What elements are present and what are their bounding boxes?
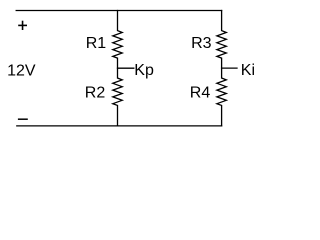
svg-text:Kp: Kp <box>134 62 154 79</box>
svg-text:Ki: Ki <box>241 62 255 79</box>
svg-text:12V: 12V <box>7 63 36 80</box>
svg-text:R3: R3 <box>191 35 212 52</box>
svg-text:R4: R4 <box>190 85 211 102</box>
svg-text:R1: R1 <box>86 35 107 52</box>
svg-text:R2: R2 <box>85 85 106 102</box>
